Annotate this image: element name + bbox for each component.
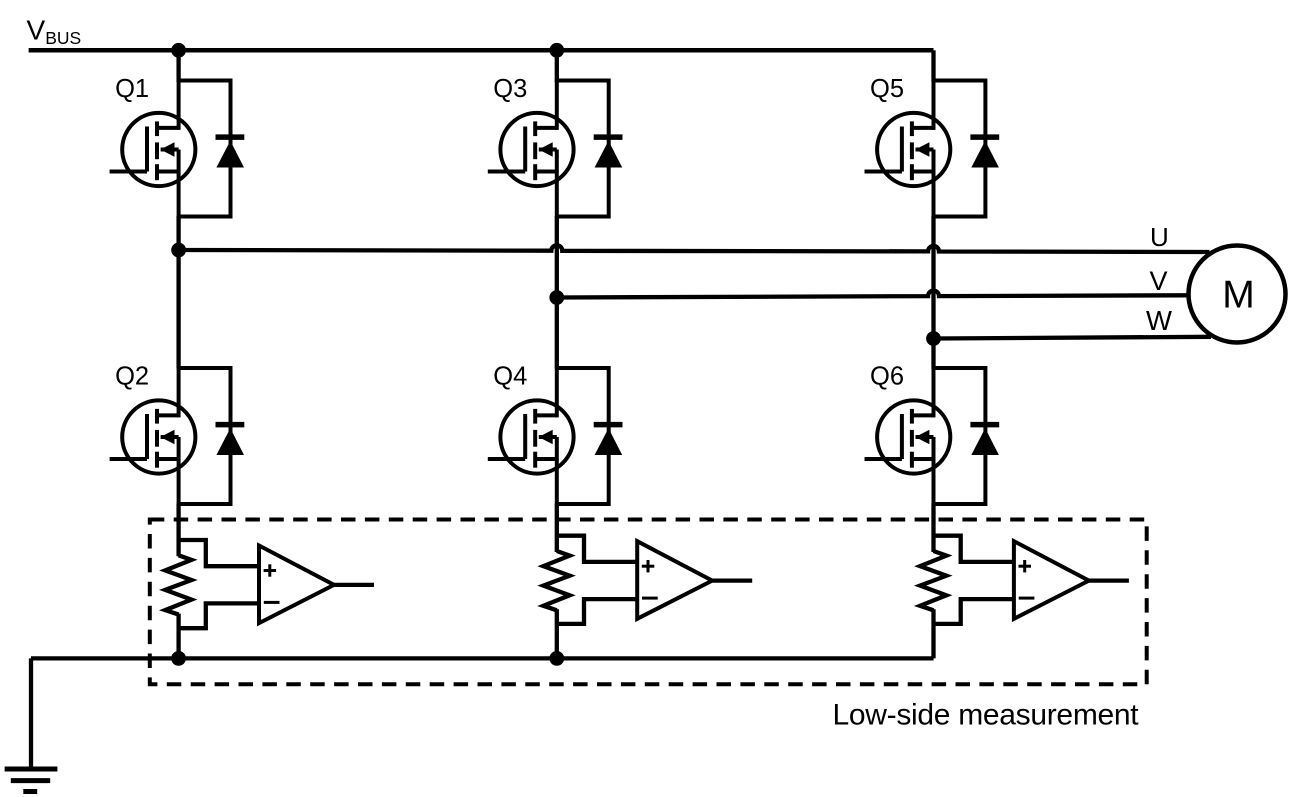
junction VBUS / leg 2: [549, 43, 564, 58]
wire VBUS to Q5 drain: [931, 50, 935, 82]
wire R2 bottom tap to op-amp U2 - input: [557, 599, 637, 624]
wire op-amp U3 output: [1089, 578, 1129, 582]
shunt resistor R2: [543, 551, 569, 610]
wire R1 bottom to ground bus: [176, 614, 180, 659]
transistor Q3: [488, 80, 574, 218]
motor M: [1189, 246, 1286, 343]
transistor Q1: [110, 80, 196, 218]
wire Q3 source to Q4 drain (phase node): [555, 216, 559, 369]
node V junction: [549, 290, 564, 305]
junction ground bus / leg 2: [549, 651, 564, 666]
wire VBUS to Q1 drain: [176, 50, 180, 82]
transistor Q6: [865, 367, 951, 505]
op-amp U3: [1014, 541, 1089, 619]
wire op-amp U2 output: [712, 578, 752, 582]
svg-text:Q3: Q3: [493, 75, 527, 103]
node W junction: [926, 331, 941, 346]
transistor Q2: [110, 367, 196, 505]
body diode of Q3: [557, 81, 623, 217]
wire Q6 source to shunt R3: [931, 504, 935, 553]
wire R3 bottom tap to op-amp U3 - input: [934, 599, 1014, 624]
svg-text:V: V: [1150, 266, 1168, 296]
junction ground bus / leg 1: [171, 651, 186, 666]
wire ground bus: [31, 656, 934, 660]
wire VBUS to Q3 drain: [555, 50, 559, 82]
body diode of Q5: [934, 81, 1000, 217]
body diode of Q4: [557, 368, 623, 504]
svg-text:Low-side measurement: Low-side measurement: [833, 699, 1140, 732]
wire Q5 source to Q6 drain (phase node): [931, 216, 935, 369]
svg-text:Q1: Q1: [115, 75, 149, 103]
wire Q2 source to shunt R1: [176, 504, 180, 557]
svg-text:Q5: Q5: [870, 75, 904, 103]
wire R3 bottom to ground bus: [931, 609, 935, 658]
svg-text:Q6: Q6: [870, 363, 904, 391]
node U junction: [171, 243, 186, 258]
junction VBUS / leg 1: [171, 43, 186, 58]
shunt resistor R1: [165, 555, 191, 614]
wire VBUS rail: [29, 48, 934, 53]
svg-text:Q4: Q4: [493, 363, 527, 391]
op-amp U1: [259, 546, 334, 624]
dashed box: low-side measurement region: [150, 520, 1147, 685]
svg-text:U: U: [1150, 222, 1169, 252]
wire ground bus to ground symbol: [29, 658, 33, 769]
transistor Q5: [865, 80, 951, 218]
body diode of Q1: [179, 81, 245, 217]
ground: [5, 769, 58, 792]
shunt resistor R3: [920, 551, 946, 610]
transistor Q4: [488, 367, 574, 505]
svg-text:Q2: Q2: [115, 363, 149, 391]
wire phase U to motor (hops over legs 2 and 3): [179, 245, 1210, 252]
wire R1 top tap to op-amp U1 + input: [179, 540, 259, 566]
wire phase V to motor (hop over leg 3): [557, 291, 1188, 298]
wire R1 bottom tap to op-amp U1 - input: [179, 603, 259, 628]
wire Q1 source to Q2 drain (phase node): [176, 216, 180, 369]
svg-text:M: M: [1222, 274, 1255, 317]
wire R2 bottom to ground bus: [555, 609, 559, 658]
wire op-amp U1 output: [334, 583, 374, 587]
op-amp U2: [637, 541, 712, 619]
wire R3 top tap to op-amp U3 + input: [934, 536, 1014, 562]
body diode of Q2: [179, 368, 245, 504]
body diode of Q6: [934, 368, 1000, 504]
wire R2 top tap to op-amp U2 + input: [557, 536, 637, 562]
svg-text:W: W: [1146, 305, 1172, 336]
wire phase W to motor: [934, 337, 1212, 339]
wire Q4 source to shunt R2: [555, 504, 559, 553]
